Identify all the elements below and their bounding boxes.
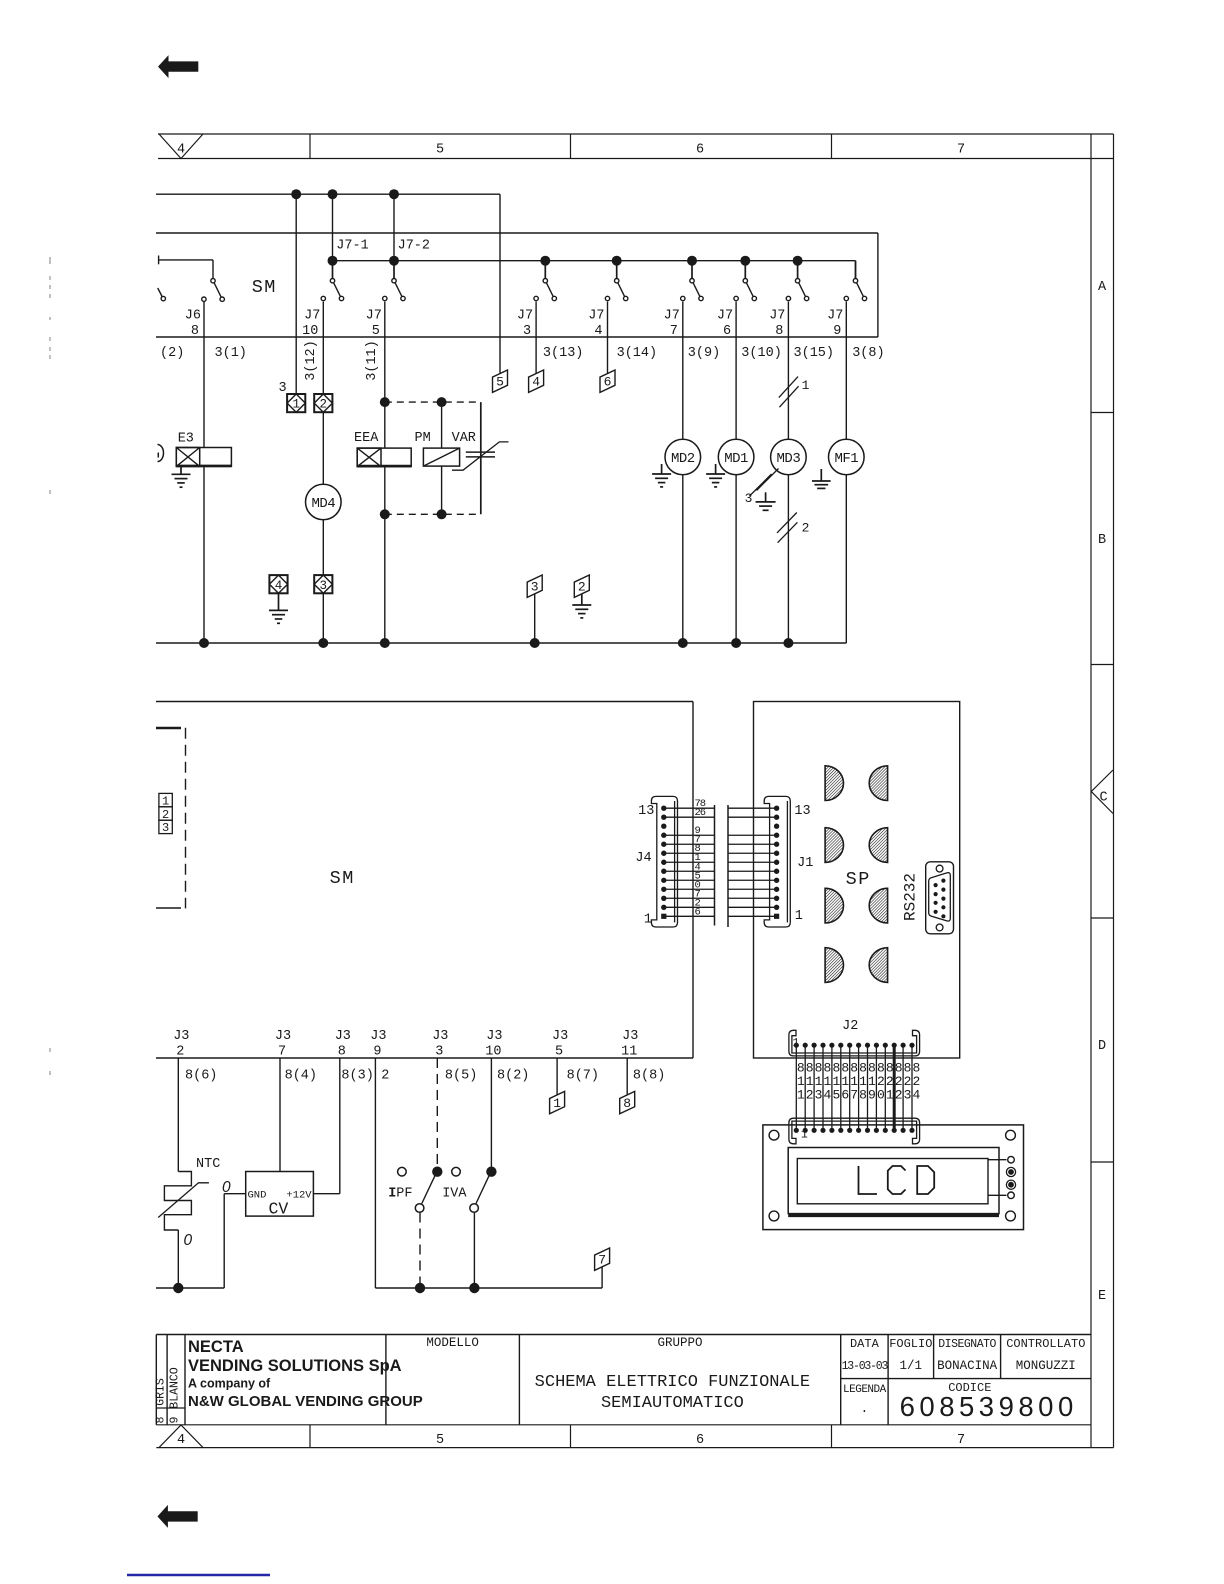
svg-text:3: 3 xyxy=(320,579,328,593)
svg-text:3(10): 3(10) xyxy=(741,346,782,361)
svg-text:CONTROLLATO: CONTROLLATO xyxy=(1006,1337,1085,1351)
svg-text:5: 5 xyxy=(555,1045,563,1060)
svg-text:GRUPPO: GRUPPO xyxy=(657,1336,702,1350)
svg-text:1: 1 xyxy=(802,378,810,393)
svg-text:2: 2 xyxy=(895,1088,903,1103)
svg-text:8(8): 8(8) xyxy=(633,1069,665,1084)
svg-text:5: 5 xyxy=(496,375,504,390)
svg-text:1: 1 xyxy=(815,1074,823,1089)
svg-text:J3: J3 xyxy=(370,1029,386,1044)
svg-text:2: 2 xyxy=(381,1069,389,1084)
svg-text:1: 1 xyxy=(797,1074,805,1089)
svg-text:1: 1 xyxy=(886,1088,894,1103)
svg-text:J3: J3 xyxy=(173,1029,189,1044)
svg-text:(2): (2) xyxy=(160,346,184,361)
svg-text:5: 5 xyxy=(832,1088,840,1103)
svg-text:B: B xyxy=(1098,533,1106,548)
svg-text:7: 7 xyxy=(850,1088,858,1103)
svg-text:13: 13 xyxy=(794,804,810,819)
svg-text:2: 2 xyxy=(877,1074,885,1089)
svg-text:DISEGNATO: DISEGNATO xyxy=(938,1338,996,1351)
svg-text:DATA: DATA xyxy=(850,1337,880,1351)
svg-text:8(4): 8(4) xyxy=(285,1069,317,1084)
svg-text:10: 10 xyxy=(485,1045,501,1060)
svg-text:3(9): 3(9) xyxy=(688,346,720,361)
svg-text:PM: PM xyxy=(415,431,431,446)
svg-text:1: 1 xyxy=(841,1074,849,1089)
svg-text:2: 2 xyxy=(802,520,810,535)
svg-text:3(15): 3(15) xyxy=(794,346,835,361)
svg-text:J1: J1 xyxy=(797,856,813,871)
svg-text:1: 1 xyxy=(832,1074,840,1089)
svg-text:J7: J7 xyxy=(664,309,680,324)
svg-text:7: 7 xyxy=(957,143,965,158)
svg-text:7: 7 xyxy=(598,1253,606,1268)
svg-text:8(2): 8(2) xyxy=(497,1069,529,1084)
svg-text:3(12): 3(12) xyxy=(304,340,319,381)
svg-text:6: 6 xyxy=(723,324,731,339)
svg-text:3: 3 xyxy=(162,821,169,835)
svg-text:MODELLO: MODELLO xyxy=(426,1336,479,1350)
svg-text:J2: J2 xyxy=(842,1019,858,1034)
svg-text:RS232: RS232 xyxy=(902,873,920,921)
svg-text:7: 7 xyxy=(670,324,678,339)
svg-text:CV: CV xyxy=(269,1200,289,1219)
svg-text:4: 4 xyxy=(275,579,283,593)
svg-text:SM: SM xyxy=(252,277,277,298)
svg-text:2: 2 xyxy=(886,1074,894,1089)
svg-text:J3: J3 xyxy=(622,1029,638,1044)
svg-text:1: 1 xyxy=(859,1074,867,1089)
svg-text:8(3): 8(3) xyxy=(341,1069,373,1084)
svg-text:1: 1 xyxy=(806,1074,814,1089)
svg-text:FOGLIO: FOGLIO xyxy=(889,1337,932,1351)
svg-text:NECTA: NECTA xyxy=(188,1338,244,1356)
svg-text:MD4: MD4 xyxy=(311,496,335,512)
svg-text:J3: J3 xyxy=(552,1029,568,1044)
svg-text:MD1: MD1 xyxy=(724,451,748,467)
svg-text:J7: J7 xyxy=(717,309,733,324)
svg-text:J3: J3 xyxy=(486,1029,502,1044)
svg-text:MD2: MD2 xyxy=(671,451,695,467)
svg-text:.: . xyxy=(860,1401,868,1416)
svg-text:2: 2 xyxy=(904,1074,912,1089)
svg-text:EEA: EEA xyxy=(354,431,379,446)
svg-text:3: 3 xyxy=(278,381,286,396)
svg-text:1: 1 xyxy=(850,1074,858,1089)
svg-text:J3: J3 xyxy=(432,1029,448,1044)
svg-text:8(7): 8(7) xyxy=(567,1069,599,1084)
svg-text:3(13): 3(13) xyxy=(543,346,584,361)
svg-text:J7: J7 xyxy=(769,309,785,324)
svg-text:VAR: VAR xyxy=(452,431,476,446)
svg-text:E: E xyxy=(1098,1289,1106,1304)
svg-text:4: 4 xyxy=(913,1088,921,1103)
svg-text:3: 3 xyxy=(904,1088,912,1103)
svg-text:11: 11 xyxy=(621,1045,637,1060)
svg-text:8: 8 xyxy=(623,1096,631,1111)
svg-text:J6: J6 xyxy=(185,309,201,324)
svg-text:0: 0 xyxy=(877,1088,885,1103)
svg-text:2: 2 xyxy=(320,398,328,412)
svg-text:J7: J7 xyxy=(588,309,604,324)
svg-text:13-03-03: 13-03-03 xyxy=(842,1360,889,1373)
svg-text:7: 7 xyxy=(957,1433,965,1448)
svg-text:4: 4 xyxy=(177,143,185,158)
svg-text:J7: J7 xyxy=(827,309,843,324)
svg-text:A company of: A company of xyxy=(188,1377,271,1391)
svg-text:A: A xyxy=(1098,280,1107,295)
svg-text:N&W GLOBAL VENDING GROUP: N&W GLOBAL VENDING GROUP xyxy=(188,1393,423,1410)
svg-text:4: 4 xyxy=(824,1088,832,1103)
svg-text:26: 26 xyxy=(695,807,706,819)
svg-text:1/1: 1/1 xyxy=(900,1359,923,1373)
svg-text:3: 3 xyxy=(435,1045,443,1060)
svg-text:7: 7 xyxy=(278,1045,286,1060)
svg-text:J4: J4 xyxy=(635,851,651,866)
svg-text:NTC: NTC xyxy=(196,1157,220,1172)
svg-text:LEGENDA: LEGENDA xyxy=(843,1384,887,1396)
svg-text:3: 3 xyxy=(815,1088,823,1103)
svg-text:8: 8 xyxy=(191,324,199,339)
svg-text:3(14): 3(14) xyxy=(617,346,658,361)
svg-text:D: D xyxy=(1098,1039,1106,1054)
svg-text:8: 8 xyxy=(338,1045,346,1060)
svg-text:6: 6 xyxy=(604,375,612,390)
svg-text:8: 8 xyxy=(775,324,783,339)
svg-text:1: 1 xyxy=(292,398,300,412)
svg-text:6: 6 xyxy=(696,143,704,158)
svg-text:9: 9 xyxy=(868,1088,876,1103)
svg-text:3: 3 xyxy=(531,580,539,595)
svg-text:3: 3 xyxy=(523,324,531,339)
svg-text:E3: E3 xyxy=(178,432,194,447)
svg-text:3: 3 xyxy=(745,491,753,506)
svg-text:5: 5 xyxy=(436,143,444,158)
svg-text:1: 1 xyxy=(868,1074,876,1089)
svg-text:SP: SP xyxy=(846,869,871,890)
svg-text:10: 10 xyxy=(302,324,318,339)
svg-text:1: 1 xyxy=(824,1074,832,1089)
svg-text:1: 1 xyxy=(644,913,652,928)
svg-text:GND: GND xyxy=(248,1190,267,1202)
svg-text:J7: J7 xyxy=(304,309,320,324)
svg-text:6: 6 xyxy=(695,906,701,918)
svg-text:13: 13 xyxy=(638,804,654,819)
svg-text:PF: PF xyxy=(396,1187,412,1202)
svg-text:0: 0 xyxy=(184,1232,193,1249)
svg-text:8: 8 xyxy=(155,1416,168,1423)
svg-text:9: 9 xyxy=(373,1045,381,1060)
svg-text:MONGUZZI: MONGUZZI xyxy=(1016,1359,1076,1373)
svg-text:8: 8 xyxy=(859,1088,867,1103)
svg-text:GRIS: GRIS xyxy=(155,1378,168,1406)
svg-text:SEMIAUTOMATICO: SEMIAUTOMATICO xyxy=(601,1394,744,1413)
svg-text:SCHEMA ELETTRICO FUNZIONALE: SCHEMA ELETTRICO FUNZIONALE xyxy=(535,1373,810,1392)
svg-text:5: 5 xyxy=(372,324,380,339)
svg-text:MD3: MD3 xyxy=(777,451,801,467)
svg-text:8(5): 8(5) xyxy=(445,1069,477,1084)
svg-text:2: 2 xyxy=(913,1074,921,1089)
svg-text:VENDING SOLUTIONS SpA: VENDING SOLUTIONS SpA xyxy=(188,1357,402,1375)
svg-text:1: 1 xyxy=(801,1128,808,1141)
svg-text:6: 6 xyxy=(841,1088,849,1103)
svg-text:J3: J3 xyxy=(335,1029,351,1044)
svg-text:8(6): 8(6) xyxy=(185,1069,217,1084)
svg-text:1: 1 xyxy=(797,1088,805,1103)
svg-text:J7: J7 xyxy=(517,309,533,324)
svg-text:4: 4 xyxy=(532,375,540,390)
svg-text:6: 6 xyxy=(696,1433,704,1448)
svg-text:BONACINA: BONACINA xyxy=(937,1359,998,1373)
svg-text:2: 2 xyxy=(895,1074,903,1089)
svg-text:BLANCO: BLANCO xyxy=(169,1367,182,1409)
svg-text:4: 4 xyxy=(594,324,602,339)
svg-text:9: 9 xyxy=(833,324,841,339)
svg-text:J7-1: J7-1 xyxy=(336,239,368,254)
svg-text:608539800: 608539800 xyxy=(900,1391,1078,1422)
svg-text:2: 2 xyxy=(578,580,586,595)
svg-text:2: 2 xyxy=(806,1088,814,1103)
svg-text:9: 9 xyxy=(169,1416,182,1423)
svg-text:1: 1 xyxy=(795,909,803,924)
svg-text:SM: SM xyxy=(330,868,355,889)
svg-text:MF1: MF1 xyxy=(834,451,858,467)
svg-text:3(11): 3(11) xyxy=(365,340,380,381)
svg-text:1: 1 xyxy=(553,1096,561,1111)
svg-text:3(1): 3(1) xyxy=(215,346,247,361)
svg-text:3(8): 3(8) xyxy=(852,346,884,361)
svg-text:I: I xyxy=(388,1187,396,1202)
svg-text:C: C xyxy=(1099,791,1107,806)
svg-text:2: 2 xyxy=(176,1045,184,1060)
svg-text:J7: J7 xyxy=(366,309,382,324)
svg-text:IVA: IVA xyxy=(442,1187,467,1202)
svg-text:5: 5 xyxy=(436,1433,444,1448)
svg-text:+12V: +12V xyxy=(286,1190,312,1202)
svg-text:4: 4 xyxy=(177,1433,185,1448)
svg-text:J3: J3 xyxy=(275,1029,291,1044)
svg-text:J7-2: J7-2 xyxy=(398,239,430,254)
